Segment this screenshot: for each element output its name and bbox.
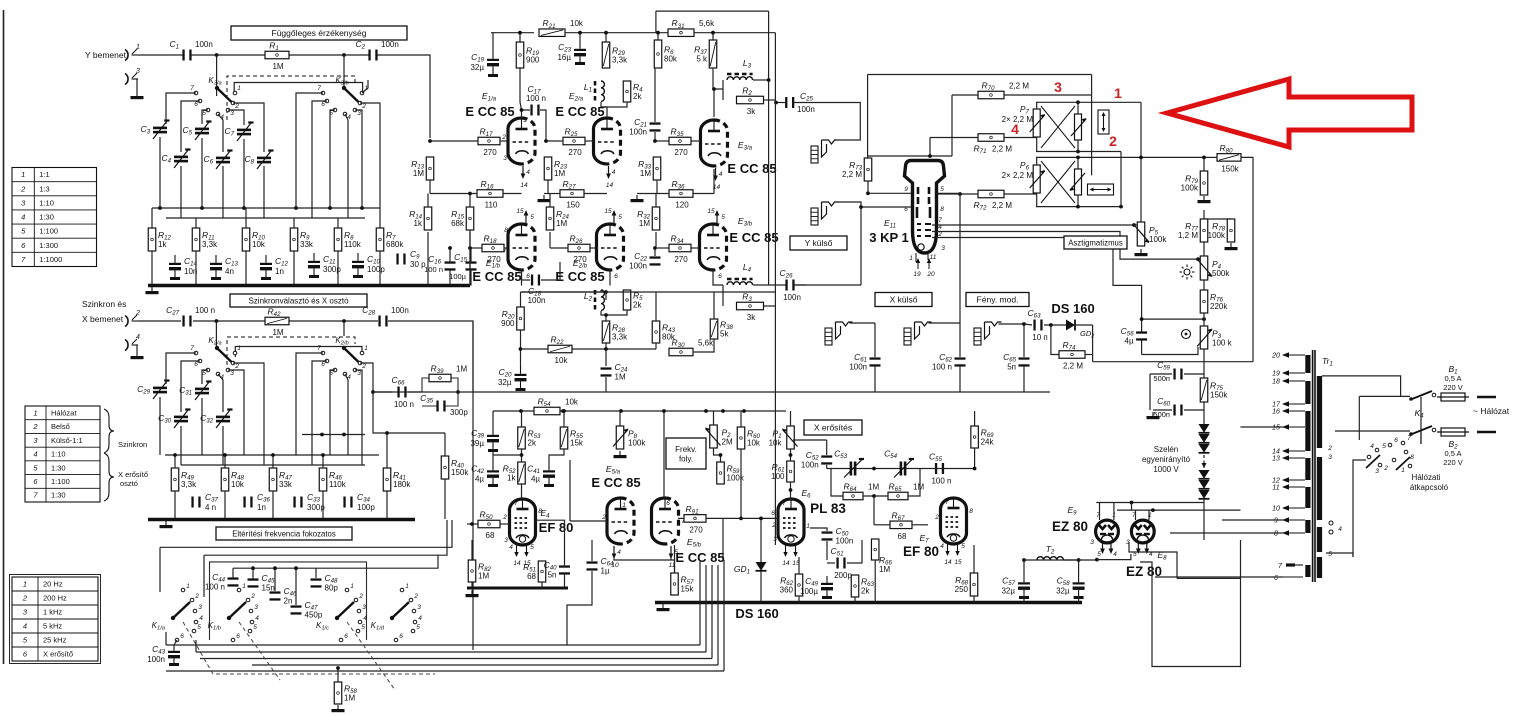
wire L4 right — [753, 284, 786, 286]
svg-text:2: 2 — [358, 593, 363, 600]
resistor R76 220k — [1200, 290, 1228, 313]
wire R69 bottom — [974, 448, 976, 469]
svg-text:3: 3 — [1054, 79, 1062, 95]
wire P3 wiper to C56 rail — [1142, 347, 1198, 355]
svg-text:270: 270 — [689, 525, 703, 534]
wire bank top x225 — [224, 455, 226, 468]
wire K2a c5 to C31 — [202, 370, 208, 384]
svg-text:5 kHz: 5 kHz — [43, 622, 62, 631]
svg-text:2n: 2n — [284, 597, 293, 606]
svg-text:32µ: 32µ — [1001, 587, 1015, 596]
junction P2 wiper — [719, 453, 723, 457]
balance2 bottom rail — [1036, 206, 1121, 208]
svg-text:100n: 100n — [381, 40, 399, 49]
svg-text:E CC 85: E CC 85 — [591, 475, 640, 490]
transformer tap 9 — [1274, 517, 1305, 524]
svg-text:68: 68 — [898, 532, 907, 541]
svg-text:100 n: 100 n — [205, 583, 225, 592]
wire R29 top — [605, 33, 607, 42]
svg-text:100p: 100p — [367, 265, 385, 274]
svg-text:1n: 1n — [275, 267, 284, 276]
svg-text:500k: 500k — [1212, 269, 1230, 278]
CRT grid7 wire — [932, 224, 1134, 226]
svg-text:11: 11 — [1272, 485, 1279, 492]
svg-text:14: 14 — [1272, 449, 1280, 456]
wire K1a c6 to C43 — [174, 640, 177, 645]
sweep riser from L2R5 — [605, 292, 607, 300]
wire R77 node — [1204, 210, 1231, 219]
wire K2a c7 to C29 — [166, 353, 196, 384]
svg-text:3: 3 — [362, 604, 366, 611]
inductor L2 — [595, 290, 604, 310]
potentiometer P3 100 k — [1197, 326, 1233, 349]
svg-text:PL 83: PL 83 — [810, 501, 846, 516]
ground at input 3 — [131, 92, 144, 99]
svg-text:1:30: 1:30 — [51, 463, 66, 472]
resistor R13 1M — [411, 157, 434, 180]
transformer secondary block 1 — [1305, 355, 1310, 373]
svg-text:1:10: 1:10 — [39, 198, 54, 207]
svg-text:7: 7 — [317, 85, 321, 92]
wire to C66 — [373, 391, 392, 393]
svg-text:1: 1 — [806, 523, 810, 530]
svg-text:4: 4 — [940, 543, 944, 550]
selenium diode 6 — [1199, 490, 1210, 499]
box Frekv foly — [666, 438, 706, 469]
capacitor C24 1M — [601, 362, 629, 382]
connector Y-kulso upper — [811, 140, 839, 163]
svg-text:6: 6 — [614, 273, 618, 280]
main ground bus — [655, 601, 1082, 604]
svg-text:4: 4 — [33, 450, 37, 459]
wire R70R71 to R73 node — [868, 155, 952, 157]
balance1 top rail — [1036, 101, 1141, 103]
resistor R77 1,2 M — [1178, 219, 1208, 242]
wire Y conn lower out — [839, 202, 862, 285]
svg-text:1M: 1M — [344, 694, 355, 703]
svg-text:1: 1 — [405, 583, 409, 590]
resistor R4 2k — [623, 81, 643, 102]
wire K1 bank top — [233, 567, 374, 569]
junction grid node E2a — [544, 139, 548, 143]
E5b cathode joins — [670, 553, 672, 560]
E2b cathode bottom — [609, 270, 611, 286]
capacitor C36 1n — [243, 492, 270, 512]
loop box R39 C35 — [422, 378, 473, 406]
wire K2b c3 down — [355, 370, 362, 465]
wire R62 bot — [798, 596, 800, 603]
transformer secondary block 5 — [1305, 487, 1310, 508]
wire C56 bottom stem — [1141, 339, 1143, 355]
wire R3 right — [764, 305, 775, 307]
resistor R38 5k — [710, 319, 733, 339]
transformer tap 10 — [1272, 505, 1305, 512]
wire GD2 right — [1076, 324, 1093, 326]
capacitor C65 5п — [1003, 352, 1029, 372]
capacitor C15 — [466, 261, 477, 270]
junction R6 rail — [656, 31, 660, 35]
sweep HT riser — [521, 291, 607, 293]
svg-text:4µ: 4µ — [531, 475, 540, 484]
wire R4 bottom — [601, 102, 627, 107]
mains stub upper — [1477, 396, 1496, 399]
resistor R26 270 — [568, 234, 590, 265]
wire GD2 node down — [1092, 325, 1094, 362]
transformer tap 17 — [1272, 401, 1305, 408]
svg-text:1: 1 — [237, 345, 241, 352]
junction E3a anode — [712, 87, 716, 91]
cathode pins E1/b top — [516, 208, 534, 223]
svg-text:33k: 33k — [300, 240, 314, 249]
junction R15 R18 — [468, 246, 472, 250]
svg-text:1M: 1M — [556, 219, 567, 228]
svg-text:1:30: 1:30 — [51, 491, 66, 500]
wire selenium to EZ80 node — [1203, 499, 1205, 540]
wire R60 top — [740, 411, 742, 427]
svg-text:100k: 100k — [628, 439, 646, 448]
svg-text:5,6k: 5,6k — [699, 19, 715, 28]
wire bank bottom x273 — [272, 491, 274, 519]
cathode pins E7 — [944, 544, 962, 566]
svg-text:5: 5 — [197, 624, 201, 631]
wire C59-C60 left link — [1149, 374, 1151, 410]
resistor R53 2k — [518, 427, 541, 449]
svg-text:15: 15 — [604, 208, 612, 215]
connector Y-kulso lower — [811, 202, 839, 225]
wire EZ80 E8 pin1 riser — [1148, 510, 1150, 520]
resistor R2 3k — [737, 86, 764, 117]
svg-text:átkapcsoló: átkapcsoló — [1410, 483, 1449, 492]
svg-text:18: 18 — [1272, 379, 1280, 386]
svg-text:Függőleges érzékenység: Függőleges érzékenység — [272, 28, 367, 38]
K1 riser left x166 — [165, 632, 167, 645]
pins bottom E9 — [1097, 543, 1117, 559]
svg-text:8: 8 — [504, 227, 508, 234]
pentode E4 EF80 — [510, 499, 536, 545]
svg-text:4 n: 4 n — [205, 503, 216, 512]
resistor R14 1k — [409, 207, 432, 230]
junction E5b anode rail — [662, 409, 666, 413]
svg-text:7: 7 — [938, 217, 942, 224]
R44 top rail — [655, 292, 657, 300]
svg-text:9: 9 — [904, 186, 908, 193]
wire C64 bot — [567, 571, 592, 645]
wire C16 bottom — [449, 269, 451, 286]
svg-text:100n: 100n — [147, 655, 165, 664]
wire C30 down — [180, 426, 182, 465]
svg-text:5: 5 — [416, 624, 420, 631]
svg-text:100n: 100n — [528, 296, 546, 305]
brightness icon — [1180, 265, 1195, 280]
triode E2/b — [597, 224, 624, 270]
trimmer capacitor C30 — [158, 410, 190, 429]
junction E1a anode — [520, 108, 524, 112]
svg-text:33k: 33k — [279, 480, 293, 489]
svg-text:100µ: 100µ — [800, 587, 818, 596]
wire node down to K2b — [343, 321, 345, 336]
trimmer capacitor C32 — [200, 410, 232, 429]
junction C23 rail — [578, 31, 582, 35]
wire K3a c2 to C8 col — [233, 103, 264, 152]
resistor R61 100 — [771, 461, 794, 482]
connector X kulso — [825, 322, 853, 345]
potentiometer P8 100k — [613, 426, 646, 449]
svg-text:1:100: 1:100 — [39, 227, 58, 236]
svg-text:DS 160: DS 160 — [735, 606, 778, 621]
wire R82 top — [471, 540, 473, 560]
junction grid node E3a — [653, 139, 657, 143]
transformer tap 14 — [1272, 448, 1305, 455]
wire E5a grid — [570, 520, 607, 522]
wire node to R34 — [657, 247, 669, 249]
svg-text:2: 2 — [502, 514, 507, 521]
junction row1 x202 — [200, 206, 204, 210]
ground EF80 stage — [466, 590, 479, 597]
svg-text:5: 5 — [530, 544, 534, 551]
wire R65 right — [908, 469, 920, 497]
resistor R91 270 — [684, 504, 706, 535]
electrolytic capacitor C13 4n — [210, 255, 239, 280]
bus y411 — [493, 410, 786, 412]
junction K3a feed — [215, 53, 219, 57]
wire C51 right — [847, 540, 862, 563]
cathode pins E4 — [513, 545, 531, 567]
svg-text:200p: 200p — [834, 571, 852, 580]
capacitor C55 100 n — [929, 452, 951, 486]
wire R61 to E6 — [790, 482, 792, 500]
svg-text:360: 360 — [780, 586, 794, 595]
junction GD1 grid wire — [759, 517, 763, 521]
wire bank bottom x225 — [224, 491, 226, 519]
wire C63 left — [1024, 324, 1032, 325]
svg-text:1,2 M: 1,2 M — [1178, 231, 1198, 240]
wire R57 top — [674, 545, 676, 573]
wire K3a c4 to C6 col — [218, 114, 223, 152]
svg-text:6: 6 — [236, 633, 240, 640]
svg-text:Szinkron: Szinkron — [118, 440, 147, 449]
balance2 left stub2 — [1036, 193, 1038, 207]
svg-text:100k: 100k — [727, 474, 745, 483]
balance2 right stub — [1077, 157, 1079, 169]
svg-text:100n: 100n — [391, 306, 409, 315]
left page border — [3, 10, 5, 664]
svg-text:200 Hz: 200 Hz — [43, 594, 67, 603]
wire C45 col — [252, 568, 254, 579]
wire x493 drop — [492, 411, 494, 427]
CRT deflection plates right — [929, 187, 930, 218]
CRT network box left — [867, 75, 869, 159]
wire R24 top — [549, 194, 551, 208]
rail R31 right — [694, 32, 775, 34]
diode GD1 (DS160) — [756, 562, 767, 571]
switch K4 upper — [1409, 391, 1436, 401]
peaking L3R2 left link — [722, 80, 724, 100]
wire grid R17 to tube — [500, 140, 508, 142]
svg-text:1M: 1M — [413, 169, 424, 178]
HT riser x656 — [655, 11, 657, 33]
resistor R41 180k — [383, 468, 411, 491]
svg-text:8: 8 — [940, 206, 944, 213]
junction row1 x362 — [360, 206, 364, 210]
svg-text:3: 3 — [230, 370, 234, 377]
wire C59 right — [1184, 373, 1204, 375]
svg-text:16: 16 — [1272, 409, 1280, 416]
wire R91 right — [706, 517, 778, 519]
wire EZ80 E9 pin7 riser — [1099, 503, 1101, 521]
node wire row K2 b — [181, 464, 365, 466]
wire R60 bottom — [740, 449, 742, 518]
wire K3b c4 down — [345, 114, 348, 218]
resistor R64 1M — [843, 482, 879, 500]
switch K2/a — [190, 336, 241, 381]
svg-text:2: 2 — [1327, 445, 1332, 452]
wire R28 bottom — [605, 343, 607, 366]
balance2 cross lines — [1041, 161, 1075, 203]
R14 bottom to gnd bus — [427, 232, 429, 286]
svg-text:1M: 1M — [868, 483, 879, 492]
wire mains K4 link — [1420, 431, 1422, 444]
svg-text:3: 3 — [254, 604, 258, 611]
selenium chain dashed — [1203, 455, 1205, 468]
wire X drive drop — [959, 194, 961, 323]
svg-text:80k: 80k — [664, 55, 678, 64]
svg-text:DS 160: DS 160 — [1051, 301, 1094, 316]
EZ80 anode rail lower — [1117, 509, 1241, 511]
svg-text:7: 7 — [945, 499, 949, 506]
balance1 right stub — [1077, 102, 1079, 114]
junction E6 grid top — [789, 488, 793, 492]
wire R35 to tube — [691, 140, 700, 142]
svg-text:4: 4 — [255, 615, 259, 622]
wire conn3 to ground — [137, 79, 138, 92]
svg-text:8: 8 — [538, 508, 542, 515]
ground R78 — [1225, 243, 1238, 250]
CRT grid2 wire — [932, 238, 1142, 334]
svg-text:Szelén: Szelén — [1154, 445, 1178, 454]
svg-text:7: 7 — [514, 500, 518, 507]
EZ80 cathode drop — [1097, 554, 1131, 560]
wire C60 right — [1184, 409, 1204, 411]
resistor R6 80k — [654, 40, 678, 68]
svg-text:270: 270 — [487, 255, 501, 264]
svg-text:100k: 100k — [1208, 231, 1226, 240]
capacitor C64 1µ — [587, 556, 615, 576]
CRT pin 1 lead — [909, 253, 916, 262]
junction R41 top — [385, 431, 389, 435]
wire R30 right — [693, 339, 714, 352]
transformer primary block 4 — [1317, 557, 1322, 578]
wire R77 to P4 — [1203, 242, 1205, 256]
svg-text:2k: 2k — [528, 439, 537, 448]
input connector 3 (Y gnd) — [125, 68, 140, 85]
box X kulso — [875, 293, 932, 307]
svg-text:10k: 10k — [747, 439, 761, 448]
resistor R48 10k — [221, 468, 245, 491]
svg-text:Szinkronválasztó és X osztó: Szinkronválasztó és X osztó — [248, 297, 349, 306]
svg-text:2,2 M: 2,2 M — [992, 201, 1012, 210]
svg-text:2k: 2k — [633, 92, 642, 101]
capacitor C27 100 n — [166, 305, 215, 327]
HT top sweep — [521, 291, 776, 293]
junction R15 node — [468, 192, 472, 196]
svg-text:Hálózat: Hálózat — [51, 408, 77, 417]
svg-text:7: 7 — [190, 85, 194, 92]
svg-text:X külső: X külső — [890, 295, 918, 305]
svg-text:7: 7 — [190, 345, 194, 352]
junction row c 1 — [320, 433, 324, 437]
resistor R69 24k — [971, 426, 995, 448]
return wire rect — [1140, 540, 1241, 667]
resistor R28 3,3k — [602, 321, 628, 343]
junction EZ80 rail x1131 — [1130, 501, 1134, 505]
E3a anode to R38 col — [713, 169, 715, 194]
svg-text:X erősítő: X erősítő — [43, 650, 73, 659]
junction R19 rail — [518, 31, 522, 35]
svg-text:8: 8 — [969, 508, 973, 515]
wire C51 left — [827, 562, 835, 564]
junction R79 rail — [1202, 156, 1206, 160]
selenium chain arrow — [1202, 463, 1207, 468]
X coupling rail — [827, 468, 975, 470]
capacitor C25 100n — [785, 97, 794, 108]
wire R7 top — [379, 208, 381, 228]
wire left to R50 — [467, 523, 478, 525]
svg-text:32µ: 32µ — [498, 378, 512, 387]
svg-text:4: 4 — [199, 615, 203, 622]
svg-text:1k: 1k — [414, 219, 423, 228]
wire R43 bottom — [655, 343, 657, 349]
wire R16 to R15 node — [503, 193, 522, 195]
junction R50 R82 — [470, 522, 474, 526]
resistor R5 2k — [623, 290, 643, 310]
junction R52 top — [520, 453, 524, 457]
junction bank x175 — [173, 453, 177, 457]
svg-text:3: 3 — [198, 604, 202, 611]
svg-text:24k: 24k — [981, 438, 995, 447]
svg-text:32µ: 32µ — [470, 63, 484, 72]
resistor R12 1k — [148, 228, 171, 251]
wire R64 loop — [831, 469, 843, 497]
wire C52 top — [826, 440, 828, 455]
svg-text:X erősítés: X erősítés — [814, 423, 852, 433]
inductor L4 — [727, 279, 753, 285]
wire P1 top — [790, 411, 792, 426]
svg-text:4: 4 — [136, 334, 140, 341]
wire P1 to R61 — [790, 449, 792, 461]
CRT cathode circle — [918, 244, 924, 250]
svg-text:1: 1 — [23, 580, 27, 589]
wire C29 down — [159, 397, 161, 455]
transformer secondary block 6 — [1305, 520, 1310, 533]
wire C57 bus — [1023, 596, 1025, 603]
electrolytic capacitor C57 32µ — [1001, 575, 1030, 599]
electrolytic capacitor C58 32µ — [1056, 575, 1085, 599]
wire R70 left — [952, 94, 978, 96]
balance1 left stub2 — [1036, 137, 1038, 152]
svg-text:6: 6 — [1274, 575, 1278, 582]
balance2 right stub2 — [1077, 195, 1079, 207]
wire E3a anode to box — [714, 89, 723, 117]
svg-text:X erősítő: X erősítő — [118, 470, 148, 479]
dashed coupling K1 — [183, 622, 435, 674]
svg-text:100: 100 — [771, 472, 785, 481]
wire HT bus to C25 — [776, 102, 786, 104]
trimmer capacitor C31 — [179, 382, 211, 401]
wire R80 right — [1241, 157, 1253, 361]
ground at input 4 — [131, 352, 144, 359]
svg-text:3,3k: 3,3k — [612, 333, 628, 342]
svg-text:1M: 1M — [639, 219, 650, 228]
